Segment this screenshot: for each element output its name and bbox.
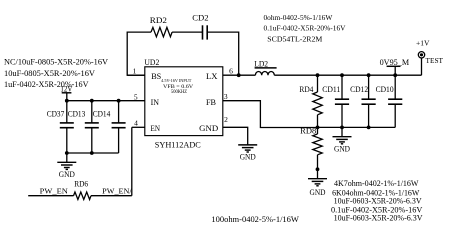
svg-text:CD11: CD11: [322, 85, 340, 94]
wire: [172, 31, 202, 33]
pin 5 wire + input rail: [67, 100, 145, 102]
svg-text:BS: BS: [151, 72, 161, 81]
svg-text:500KHZ: 500KHZ: [171, 90, 187, 95]
capacitor CD37: [47, 101, 74, 153]
svg-text:12V: 12V: [60, 84, 72, 93]
junction dots bottom rail: [316, 126, 371, 130]
svg-text:SYH112ADC: SYH112ADC: [155, 140, 201, 150]
junction dots bottom rail: [65, 151, 94, 155]
svg-text:4.5V-16V INPUT: 4.5V-16V INPUT: [161, 78, 192, 83]
svg-text:UD2: UD2: [144, 58, 159, 67]
note: internal ratings text: [161, 78, 193, 95]
pin 4 wire (EN): [132, 126, 145, 128]
svg-text:RD6: RD6: [74, 180, 88, 189]
ground (RD8): [308, 169, 327, 197]
svg-text:GND: GND: [334, 144, 350, 153]
svg-text:RD8: RD8: [300, 126, 316, 135]
svg-text:GND: GND: [59, 170, 75, 179]
junction dots input rail: [65, 99, 121, 103]
resistor RD4: [299, 75, 322, 127]
pin 3 wire (FB): [223, 101, 318, 128]
net 0V95_M: [380, 58, 410, 75]
pin 6 wire (LX output rail): [223, 74, 422, 76]
svg-text:PW_EN: PW_EN: [40, 186, 69, 195]
resistor RD6: [74, 180, 92, 200]
svg-text:4: 4: [134, 118, 138, 127]
ground (output caps): [333, 127, 352, 153]
ground (IC GND pin): [238, 145, 257, 162]
svg-text:RD4: RD4: [299, 85, 313, 94]
svg-text:10uF-0805-X5R-20%-16V: 10uF-0805-X5R-20%-16V: [4, 69, 95, 78]
svg-text:PW_EN/: PW_EN/: [102, 186, 132, 195]
svg-text:CD12: CD12: [350, 85, 368, 94]
svg-text:NC/10uF-0805-X5R-20%-16V: NC/10uF-0805-X5R-20%-16V: [4, 58, 108, 67]
power 12V: [60, 84, 72, 100]
test point TEST / +1V: [416, 38, 443, 75]
svg-text:LD2: LD2: [254, 59, 268, 68]
svg-text:CD2: CD2: [192, 14, 208, 23]
pin 2 wire (GND): [223, 127, 248, 145]
svg-text:RD2: RD2: [150, 16, 167, 25]
wire: PW_EN segment: [28, 195, 73, 197]
svg-text:IN: IN: [151, 98, 159, 107]
svg-text:0V95_M: 0V95_M: [380, 58, 410, 67]
svg-text:LX: LX: [206, 72, 218, 81]
resistor RD8: [300, 126, 322, 169]
svg-text:0.1uF-0402-X5R-20%-16V: 0.1uF-0402-X5R-20%-16V: [264, 23, 346, 32]
wire: output caps bottom rail: [318, 126, 396, 128]
wire: BS bootstrap loop: [127, 32, 151, 75]
svg-text:CD13: CD13: [68, 110, 86, 119]
svg-text:10uF-0603-X5R-20%-6.3V: 10uF-0603-X5R-20%-6.3V: [334, 213, 423, 222]
svg-text:4K7ohm-0402-1%-1/16W: 4K7ohm-0402-1%-1/16W: [334, 179, 419, 188]
svg-text:CD14: CD14: [93, 110, 111, 119]
capacitor CD12: [350, 75, 376, 127]
wire: PW_EN/ segment: [91, 195, 132, 197]
svg-text:5: 5: [134, 93, 138, 102]
junction at LX: [237, 73, 241, 77]
svg-text:SCD54TL-2R2M: SCD54TL-2R2M: [267, 35, 322, 44]
svg-text:3: 3: [224, 92, 228, 101]
svg-text:0ohm-0402-5%-1/16W: 0ohm-0402-5%-1/16W: [264, 13, 334, 22]
svg-text:10uF-0603-X5R-20%-6.3V: 10uF-0603-X5R-20%-6.3V: [334, 196, 422, 205]
note: input capacitor values (top-left): [4, 58, 108, 90]
svg-text:+1V: +1V: [416, 38, 430, 47]
junction RD8 bottom: [316, 167, 320, 171]
svg-text:GND: GND: [240, 153, 256, 162]
svg-text:100ohm-0402-5%-1/16W: 100ohm-0402-5%-1/16W: [211, 215, 299, 224]
svg-text:2: 2: [224, 115, 228, 124]
svg-text:FB: FB: [206, 98, 217, 107]
svg-text:CD10: CD10: [376, 85, 394, 94]
svg-text:1uF-0402-X5R-20%-16V: 1uF-0402-X5R-20%-16V: [4, 80, 89, 89]
ground (input caps): [57, 153, 76, 179]
resistor RD2: [150, 16, 172, 37]
pin 1 wire (BS): [127, 74, 145, 76]
svg-text:GND: GND: [310, 188, 326, 197]
svg-text:CD37: CD37: [47, 110, 65, 119]
wire: EN net vertical: [131, 127, 133, 195]
capacitor CD11: [322, 75, 349, 127]
capacitor CD14: [93, 101, 126, 153]
junction dots LX rail: [316, 73, 398, 77]
wire: input caps bottom rail: [67, 152, 119, 154]
inductor LD2: [254, 59, 276, 75]
svg-text:1: 1: [133, 66, 137, 75]
capacitor CD2: [192, 14, 208, 40]
svg-text:EN: EN: [151, 124, 161, 133]
capacitor CD10: [376, 75, 403, 127]
svg-text:6: 6: [229, 66, 233, 75]
svg-text:GND: GND: [199, 124, 218, 133]
wire: [207, 32, 239, 75]
note: output side values (bottom-right): [331, 179, 423, 223]
svg-text:TEST: TEST: [426, 56, 444, 65]
note: RD2/CD2/LD2 values (top-right): [264, 13, 346, 44]
IC UD2 body: [145, 67, 223, 136]
capacitor CD13: [68, 101, 99, 153]
